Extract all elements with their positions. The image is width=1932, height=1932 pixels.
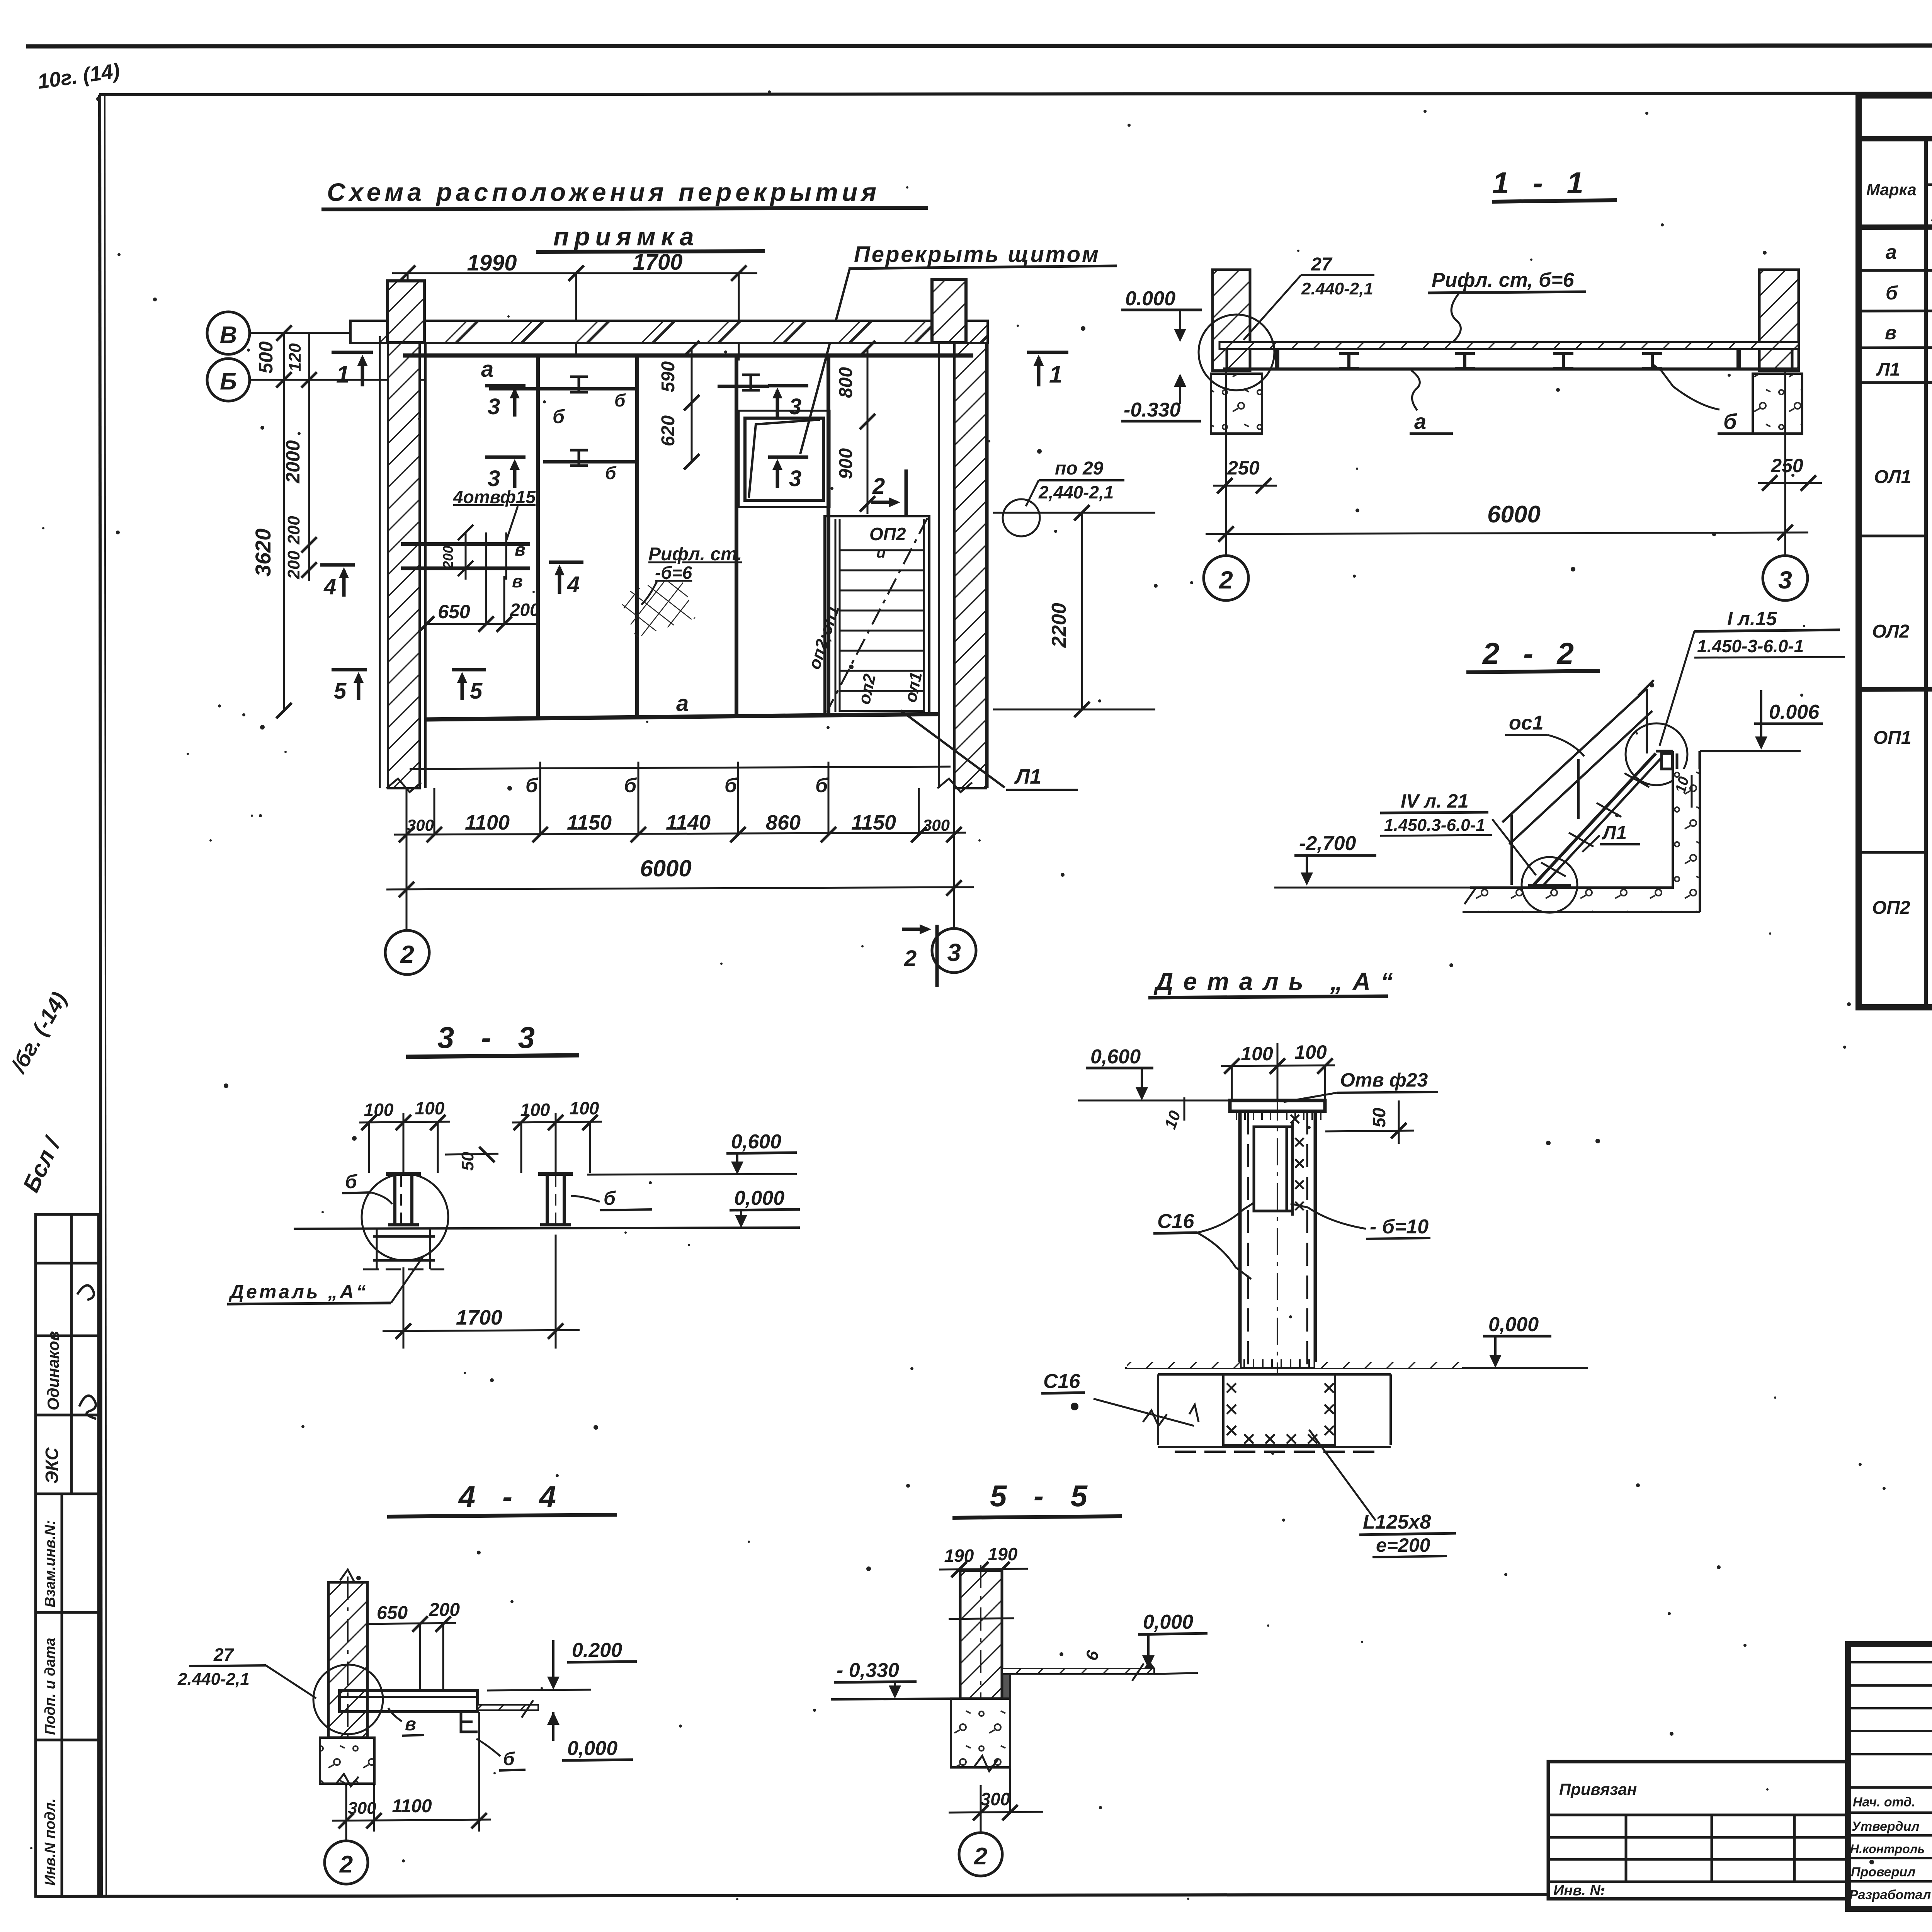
svg-text:в: в	[512, 571, 523, 591]
rung ticks on stringer	[1541, 773, 1649, 876]
svg-text:0,000: 0,000	[1143, 1611, 1193, 1633]
svg-text:и: и	[876, 544, 886, 561]
footing	[951, 1699, 1010, 1767]
svg-text:2: 2	[904, 946, 917, 971]
footing	[320, 1738, 374, 1784]
svg-text:Перекрыть щитом: Перекрыть щитом	[854, 242, 1100, 267]
svg-text:500: 500	[255, 341, 277, 374]
left vertical dim chain 500/3620	[276, 325, 317, 718]
beam в	[340, 1690, 478, 1712]
svg-text:620: 620	[658, 415, 679, 446]
svg-text:Инв. N:: Инв. N:	[1553, 1883, 1605, 1899]
section mark 2 bottom	[902, 924, 937, 987]
top-right column	[932, 279, 966, 343]
svg-text:3: 3	[789, 394, 801, 419]
svg-text:1150: 1150	[851, 811, 896, 834]
stair stringer Л1	[1529, 753, 1656, 889]
svg-text:б: б	[503, 1749, 515, 1769]
svg-text:50: 50	[1369, 1107, 1389, 1128]
section marks 3 right pair	[768, 386, 808, 488]
svg-text:190: 190	[944, 1546, 974, 1566]
svg-text:4 - 4: 4 - 4	[458, 1480, 565, 1514]
svg-text:а: а	[481, 357, 493, 382]
left footing	[1211, 374, 1262, 434]
pit / footing below floor	[1158, 1374, 1391, 1452]
svg-text:-0.330: -0.330	[1124, 399, 1181, 421]
svg-text:а: а	[1886, 241, 1897, 264]
svg-text:0,600: 0,600	[731, 1131, 781, 1153]
svg-text:2000: 2000	[282, 440, 304, 483]
svg-text:3: 3	[1778, 566, 1792, 594]
svg-text:800: 800	[836, 367, 856, 398]
svg-text:120: 120	[286, 343, 304, 372]
bottom dim row 300/1100/1150/1140/860/1150/300	[394, 762, 966, 842]
wall	[328, 1582, 367, 1738]
main title block frame	[1848, 1644, 1932, 1909]
svg-text:приямка: приямка	[553, 222, 699, 251]
svg-text:5 - 5: 5 - 5	[990, 1479, 1097, 1513]
svg-text:- б=10: - б=10	[1370, 1216, 1429, 1238]
svg-text:б: б	[605, 463, 617, 483]
svg-text:Подп. и дата: Подп. и дата	[42, 1638, 58, 1735]
row lines а б в Л1	[1859, 269, 1932, 270]
floor line	[1125, 1367, 1588, 1369]
small grid rows	[1848, 1661, 1932, 1663]
svg-text:1990: 1990	[467, 250, 517, 276]
svg-text:250: 250	[1770, 455, 1803, 476]
detail circle on beam end	[313, 1665, 383, 1734]
svg-text:ЭКС: ЭКС	[42, 1447, 62, 1484]
leader from note to hatch panel	[800, 267, 850, 454]
svg-text:Л1: Л1	[1876, 359, 1900, 380]
svg-text:С16: С16	[1157, 1210, 1194, 1233]
svg-text:200: 200	[429, 1600, 460, 1620]
марка col group dividers	[1859, 535, 1926, 537]
svg-text:ос1: ос1	[1509, 712, 1544, 734]
svg-text:0,000: 0,000	[734, 1187, 784, 1209]
xx weld marks around footing	[1227, 1383, 1334, 1444]
detail circle around left post	[362, 1174, 448, 1260]
placeholder groups filled below	[207, 178, 1155, 987]
svg-text:650: 650	[377, 1603, 408, 1623]
beams в (two horizontal)	[401, 542, 530, 546]
svg-text:e=200: e=200	[1376, 1534, 1430, 1556]
wall break marks	[386, 779, 421, 792]
svg-text:590: 590	[658, 361, 679, 392]
svg-text:2.440-2,1: 2.440-2,1	[177, 1670, 250, 1689]
dim 50 right	[1325, 1131, 1414, 1131]
inner drawing frame bottom	[37, 1895, 1548, 1896]
dim 590/620	[684, 341, 699, 469]
axis 2 vertical and circle	[406, 788, 408, 930]
header mid split (Сечение / усилия)	[1926, 184, 1932, 186]
svg-text:б: б	[604, 1187, 616, 1209]
section mark 4 left	[320, 565, 355, 597]
section mark 2 top	[871, 469, 906, 516]
svg-text:2200: 2200	[1048, 603, 1070, 648]
left wall of section	[1213, 270, 1250, 371]
channel б under beam end	[461, 1712, 478, 1732]
svg-text:Рифл. ст.: Рифл. ст.	[648, 544, 742, 565]
svg-text:Проверил: Проверил	[1851, 1865, 1915, 1879]
svg-text:2: 2	[400, 940, 414, 968]
svg-text:0.006: 0.006	[1769, 701, 1820, 723]
upper floor line right	[1700, 750, 1801, 752]
svg-text:2: 2	[872, 474, 885, 499]
floor line of 3-3	[294, 1228, 800, 1229]
svg-text:в: в	[405, 1714, 416, 1735]
axis В line	[250, 332, 354, 334]
svg-text:860: 860	[766, 811, 801, 834]
svg-text:а: а	[676, 691, 689, 716]
svg-text:200: 200	[284, 551, 303, 580]
section mark 1 left	[332, 352, 373, 386]
connector beams б top area	[489, 387, 635, 391]
dim 10 small	[1691, 775, 1693, 808]
svg-text:Деталь „А“: Деталь „А“	[1153, 968, 1403, 995]
right wall of section	[1759, 270, 1799, 371]
riffled steel hatch patch	[618, 575, 696, 638]
svg-text:Л1: Л1	[1014, 765, 1041, 788]
svg-text:Нач. отд.: Нач. отд.	[1853, 1795, 1915, 1810]
svg-text:27: 27	[213, 1645, 235, 1665]
svg-text:Одинаков: Одинаков	[44, 1331, 62, 1410]
svg-text:900: 900	[836, 448, 856, 479]
beam a top	[403, 354, 973, 358]
svg-text:IV л. 21: IV л. 21	[1401, 790, 1469, 812]
outer top border line	[26, 45, 1932, 46]
svg-text:б: б	[624, 774, 637, 797]
svg-text:С16: С16	[1043, 1370, 1080, 1393]
svg-text:27: 27	[1311, 254, 1333, 275]
inner drawing frame top	[99, 93, 1932, 95]
group divider ОЛ2/ОП1 thick	[1859, 688, 1932, 689]
dim 6000	[1206, 525, 1808, 542]
section mark 4 mid	[549, 562, 583, 594]
svg-text:0.000: 0.000	[1125, 287, 1175, 310]
svg-text:по 29: по 29	[1055, 458, 1104, 479]
dim 10 left	[1184, 1097, 1185, 1121]
svg-text:1150: 1150	[567, 811, 612, 834]
svg-text:0,000: 0,000	[567, 1737, 617, 1760]
Л1 label with leader	[900, 710, 1005, 787]
svg-text:100: 100	[415, 1098, 445, 1118]
svg-text:0,000: 0,000	[1488, 1313, 1539, 1336]
svg-text:Б: Б	[220, 368, 237, 395]
svg-text:300: 300	[407, 816, 434, 834]
svg-text:250: 250	[1227, 457, 1260, 479]
axis circle В	[207, 312, 250, 354]
svg-text:100: 100	[520, 1100, 550, 1120]
svg-text:б: б	[1723, 409, 1737, 434]
left wall	[388, 343, 420, 788]
svg-text:650: 650	[438, 601, 470, 622]
embedded beam below left post	[363, 1229, 444, 1269]
svg-text:1.450.3-6.0-1: 1.450.3-6.0-1	[1384, 816, 1485, 835]
svg-text:100: 100	[1241, 1043, 1273, 1065]
element list table frame	[1859, 95, 1932, 1007]
attached left table (Привязан)	[1548, 1762, 1848, 1899]
dim 650/200	[419, 576, 538, 632]
svg-text:ОП1: ОП1	[1873, 728, 1912, 748]
svg-text:4: 4	[567, 572, 580, 597]
right post	[538, 1174, 573, 1225]
svg-text:4отвф15: 4отвф15	[453, 487, 536, 507]
svg-text:Инв.N подл.: Инв.N подл.	[42, 1798, 58, 1886]
svg-text:5: 5	[470, 679, 483, 704]
svg-text:2: 2	[339, 1851, 353, 1878]
axis circle 2	[980, 1785, 982, 1833]
svg-text:- 0,330: - 0,330	[837, 1659, 899, 1682]
title row bottom	[1859, 138, 1932, 139]
svg-text:300: 300	[981, 1789, 1010, 1809]
svg-text:Деталь „А“: Деталь „А“	[228, 1281, 368, 1303]
svg-text:б: б	[553, 406, 565, 427]
svg-text:ОП2: ОП2	[869, 524, 906, 544]
svg-text:200: 200	[440, 546, 456, 569]
dim 50 small	[445, 1154, 498, 1155]
svg-text:100: 100	[364, 1100, 394, 1120]
top connection circle	[1626, 723, 1687, 785]
svg-text:200: 200	[510, 600, 540, 620]
stair railing	[1502, 689, 1647, 822]
svg-text:Взам.инв.N:: Взам.инв.N:	[42, 1520, 58, 1607]
beams б vertical	[536, 355, 540, 719]
section mark 5 left	[332, 670, 367, 700]
slab beam body	[1219, 348, 1799, 350]
svg-text:1: 1	[336, 361, 349, 388]
top plate	[1230, 1100, 1325, 1111]
section mark 5 mid	[452, 670, 486, 700]
section marks 3 left pair	[485, 386, 526, 488]
dim 2200 right	[993, 505, 1155, 717]
svg-text:1100: 1100	[392, 1796, 432, 1816]
svg-text:б: б	[1886, 282, 1898, 304]
svg-text:3: 3	[488, 394, 500, 419]
svg-text:Привязан: Привязан	[1559, 1780, 1637, 1798]
top dimension line 1990 / 1700	[392, 265, 757, 361]
svg-text:3: 3	[789, 466, 801, 491]
detail circle at left support	[1199, 315, 1274, 390]
svg-text:L125x8: L125x8	[1363, 1511, 1431, 1533]
header bottom thick	[1859, 226, 1932, 227]
base connection circle	[1522, 857, 1577, 913]
right footing	[1753, 374, 1802, 434]
svg-text:В: В	[220, 322, 237, 349]
svg-text:6000: 6000	[1487, 501, 1541, 528]
break mark on pit left	[1143, 1410, 1167, 1426]
inner gusset channel	[1254, 1122, 1293, 1216]
svg-text:190: 190	[988, 1544, 1018, 1564]
column shaft	[1240, 1094, 1315, 1374]
svg-text:1: 1	[1049, 361, 1062, 388]
concrete patch under slab edge	[1002, 1674, 1011, 1699]
stamp boxes outline	[36, 1214, 99, 1896]
svg-text:Отв ф23: Отв ф23	[1340, 1069, 1428, 1091]
svg-text:I л.15: I л.15	[1727, 608, 1777, 629]
svg-text:2 - 2: 2 - 2	[1482, 636, 1582, 670]
svg-text:6000: 6000	[640, 855, 691, 881]
svg-text:200: 200	[284, 516, 303, 545]
svg-text:1700: 1700	[456, 1306, 502, 1329]
small I-section symbols	[570, 375, 760, 466]
svg-text:б: б	[345, 1171, 358, 1192]
stairwell	[825, 516, 929, 714]
svg-text:б: б	[526, 774, 539, 797]
svg-text:в: в	[515, 539, 526, 560]
axis circle 2	[345, 1785, 347, 1841]
svg-text:3 - 3: 3 - 3	[437, 1020, 544, 1054]
svg-text:ОП2: ОП2	[1872, 898, 1910, 918]
svg-text:ОЛ2: ОЛ2	[1872, 621, 1910, 642]
hanger channel symbols	[1339, 354, 1662, 368]
svg-text:б: б	[614, 390, 626, 410]
svg-text:1 - 1: 1 - 1	[1492, 166, 1591, 200]
svg-text:в: в	[1885, 322, 1896, 344]
slab deck	[1219, 342, 1799, 349]
beam a bottom	[425, 714, 939, 719]
svg-text:1.450-3-6.0-1: 1.450-3-6.0-1	[1697, 636, 1804, 656]
retaining wall	[1672, 751, 1674, 901]
svg-text:-2,700: -2,700	[1299, 832, 1356, 855]
wall	[960, 1571, 1002, 1699]
svg-text:2,440-2,1: 2,440-2,1	[1038, 482, 1114, 502]
axis 2 circle	[1225, 371, 1227, 556]
svg-text:2: 2	[974, 1843, 987, 1870]
axis Б line	[250, 379, 425, 381]
svg-text:2: 2	[1219, 566, 1233, 594]
svg-text:5: 5	[334, 679, 347, 704]
axis circle Б	[207, 359, 250, 401]
svg-text:100: 100	[1294, 1041, 1327, 1063]
svg-text:3620: 3620	[251, 529, 275, 577]
svg-text:ОЛ1: ОЛ1	[1874, 467, 1911, 487]
slab hatched band	[350, 321, 988, 343]
top-left column	[388, 281, 424, 343]
svg-text:Марка: Марка	[1866, 180, 1917, 199]
top anchor plate	[1656, 751, 1677, 770]
inner drawing frame left	[100, 95, 101, 1896]
svg-text:50: 50	[458, 1152, 477, 1171]
svg-text:Л1: Л1	[1602, 822, 1627, 844]
floor line left	[831, 1699, 960, 1699]
svg-text:2.440-2,1: 2.440-2,1	[1301, 279, 1373, 298]
svg-text:а: а	[1414, 409, 1426, 434]
svg-text:б: б	[815, 774, 828, 797]
right wall	[954, 343, 986, 788]
dim 6000	[386, 880, 974, 897]
left post	[386, 1174, 421, 1225]
svg-text:Утвердил: Утвердил	[1852, 1819, 1920, 1834]
slab deck right	[1002, 1668, 1154, 1674]
svg-text:100: 100	[570, 1098, 599, 1118]
dim 800/900 right of window	[860, 341, 875, 514]
svg-text:1100: 1100	[465, 811, 510, 834]
vertical: Марка col	[1924, 139, 1928, 1007]
svg-text:Схема расположения перекрыти: Схема расположения перекрытия	[327, 178, 880, 206]
svg-text:0,600: 0,600	[1090, 1046, 1141, 1068]
svg-text:Разработал: Разработал	[1849, 1888, 1931, 1902]
svg-text:б: б	[724, 774, 738, 797]
svg-text:1140: 1140	[666, 811, 711, 834]
section mark 1 right	[1027, 352, 1068, 386]
svg-text:300: 300	[923, 816, 950, 834]
svg-text:0.200: 0.200	[572, 1639, 622, 1662]
svg-text:Н.контроль: Н.контроль	[1850, 1842, 1925, 1856]
window opening (Перекрыть щитом panel)	[739, 411, 830, 507]
svg-text:3: 3	[947, 939, 961, 966]
svg-text:1700: 1700	[633, 250, 682, 275]
svg-text:Рифл. ст, б=6: Рифл. ст, б=6	[1432, 269, 1575, 291]
axis 3 vertical and circle	[953, 788, 955, 929]
base plate weld ticks	[1244, 1359, 1309, 1368]
bottom floor of pit	[1470, 886, 1673, 889]
svg-text:4: 4	[323, 574, 336, 599]
deck line right	[478, 1705, 538, 1710]
axis 3 circle	[1784, 371, 1786, 556]
